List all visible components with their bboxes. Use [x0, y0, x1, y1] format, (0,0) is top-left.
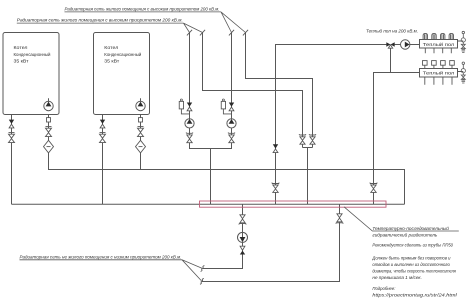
svg-text:Температурно-последовательный: Температурно-последовательный	[372, 225, 449, 231]
pump radiator circuit1	[185, 116, 194, 128]
pump boiler1	[44, 98, 53, 110]
svg-text:https://proectmontag.ru/str/24: https://proectmontag.ru/str/24.html	[372, 293, 458, 298]
balancing valve floor-return left	[299, 134, 305, 144]
valve low-priority branch	[239, 215, 246, 225]
pipe network	[12, 33, 464, 282]
shutoff valve boiler2 return	[100, 133, 106, 143]
svg-text:Должен быть прямым без поворот: Должен быть прямым без поворотов и	[371, 255, 450, 260]
svg-text:35 кВт: 35 кВт	[14, 59, 30, 65]
svg-text:Конденсационный: Конденсационный	[104, 51, 141, 58]
wire radiator riser4 return down right and drop	[246, 33, 313, 148]
wire second branch below separator to break	[202, 204, 340, 281]
pipe break slash riser2	[200, 30, 205, 36]
svg-text:гидравлический разделитель: гидравлический разделитель	[372, 231, 438, 237]
check valve floor circuit1	[273, 144, 278, 152]
shutoff valve boiler1 supply	[46, 127, 52, 137]
svg-text:Котел: Котел	[14, 45, 28, 51]
pipe break slash riser4	[243, 30, 248, 36]
pump radiator circuit2	[227, 116, 236, 128]
wire boiler1 supply down then upper bus to right drop	[49, 98, 405, 204]
pipe break squiggle branch1	[201, 266, 205, 272]
check valve radiator circuit1	[187, 103, 192, 111]
leader lines from top label1	[221, 12, 246, 33]
check valve radiator circuit2	[229, 103, 234, 111]
leader lines from top label2	[184, 23, 203, 32]
mixing valve floor circuit1	[386, 42, 394, 48]
wire low-priority branch below separator to break	[203, 204, 243, 268]
svg-text:35 кВт: 35 кВт	[104, 59, 120, 65]
manifold2 bottom stubs	[425, 77, 452, 85]
wire manifold2 air-vent connection	[458, 71, 464, 73]
svg-text:Рекомендуется сделать из трубы: Рекомендуется сделать из трубы ПП50	[372, 243, 453, 248]
valve second branch	[336, 214, 343, 224]
manifold1 air vent and drain	[461, 31, 465, 52]
wire mixing valve bottom port down to line2	[390, 48, 392, 72]
shutoff valve boiler1 return	[9, 133, 15, 143]
svg-text:отводов и выполнен из достаточ: отводов и выполнен из достаточного	[372, 262, 450, 267]
shutoff valve floor circuit1	[272, 183, 279, 193]
wire manifold1 air-vent connection	[458, 40, 464, 42]
svg-text:Радиаторная сеть жилого помеще: Радиаторная сеть жилого помещения с высо…	[65, 6, 220, 12]
svg-text:Конденсационный: Конденсационный	[14, 51, 51, 58]
boiler B1 label	[14, 45, 51, 65]
wire pump to manifold1	[410, 44, 420, 46]
air vent radiator circuit2	[221, 99, 231, 114]
svg-text:Теплый пол: Теплый пол	[423, 71, 455, 76]
svg-text:Подробнее:: Подробнее:	[372, 286, 396, 291]
shutoff valve radiator circuit2	[228, 132, 234, 142]
red highlight box hydraulic separator	[200, 201, 387, 207]
manifold2 top squares	[423, 61, 455, 69]
air vent radiator circuit1	[179, 99, 189, 114]
wire boiler2 return down to separator	[102, 115, 104, 205]
check valve boiler2 return	[100, 120, 105, 128]
manifold1 bottom stubs	[425, 48, 451, 53]
shutoff valve boiler2 supply	[138, 127, 144, 137]
union boiler1 supply	[47, 118, 51, 122]
svg-text:диаметра, чтобы скорость тепло: диаметра, чтобы скорость теплоносителя	[372, 269, 456, 274]
wire separator main horizontal	[12, 203, 405, 205]
manifold2 body	[420, 69, 458, 78]
svg-text:Котел: Котел	[104, 45, 118, 51]
note block hydraulic separator	[371, 225, 457, 298]
union boiler2 supply	[139, 118, 143, 122]
wire floor circuit2 riser and run to manifold2	[374, 73, 420, 205]
wire floor-return merged drop to separator	[307, 148, 309, 205]
boiler B2 body	[94, 33, 150, 115]
wire floor-return merge bridge	[303, 147, 313, 149]
pump boiler2	[136, 98, 145, 110]
top label2 radiator network high priority	[17, 17, 184, 23]
check valve boiler1 return	[9, 120, 14, 128]
wire radiator merge drop to separator	[210, 149, 212, 205]
wire boiler1 return down to separator	[11, 115, 13, 205]
svg-text:не превышала 1 м/сек.: не превышала 1 м/сек.	[372, 275, 422, 280]
manifold1 body	[420, 40, 458, 49]
pump low-priority branch	[238, 232, 248, 242]
filter boiler2 supply	[136, 140, 146, 153]
leader lines bottom-left label to breaks	[182, 260, 202, 281]
svg-text:Теплый пол на 200 кВ.м.: Теплый пол на 200 кВ.м.	[366, 27, 418, 34]
wire mixing valve to pump	[395, 44, 401, 46]
svg-text:Радиаторная сеть жилого помеще: Радиаторная сеть жилого помещения с высо…	[17, 17, 183, 23]
leader line separator to note	[344, 207, 459, 231]
wire floor circuit1 riser and run to mixing valve	[276, 45, 387, 205]
wire radiator riser2 return down right and drop	[203, 33, 303, 148]
boiler B1 body	[3, 33, 59, 115]
check valve low-priority branch	[240, 246, 245, 254]
balancing valve floor-return right	[309, 134, 315, 144]
svg-text:Теплый пол: Теплый пол	[423, 42, 455, 47]
manifold2 air vent and drain	[461, 62, 465, 83]
wire boiler2 supply down to bus	[140, 98, 142, 169]
top label1 radiator network high priority	[65, 6, 222, 12]
manifold1 actuators	[423, 33, 453, 39]
pump floor circuit1	[401, 40, 411, 49]
bottom-left label low priority radiator network	[20, 254, 183, 260]
pipe break slash riser3	[229, 30, 234, 36]
shutoff valve radiator circuit1	[186, 132, 192, 142]
filter boiler1 supply	[44, 140, 54, 153]
boiler B2 label	[104, 45, 141, 65]
wire radiator riser1 down with corner and riser3 up	[190, 33, 232, 149]
pipe break slash riser1	[187, 30, 192, 36]
pipe break squiggle branch2	[200, 278, 204, 284]
shutoff valve floor circuit2	[370, 183, 377, 193]
